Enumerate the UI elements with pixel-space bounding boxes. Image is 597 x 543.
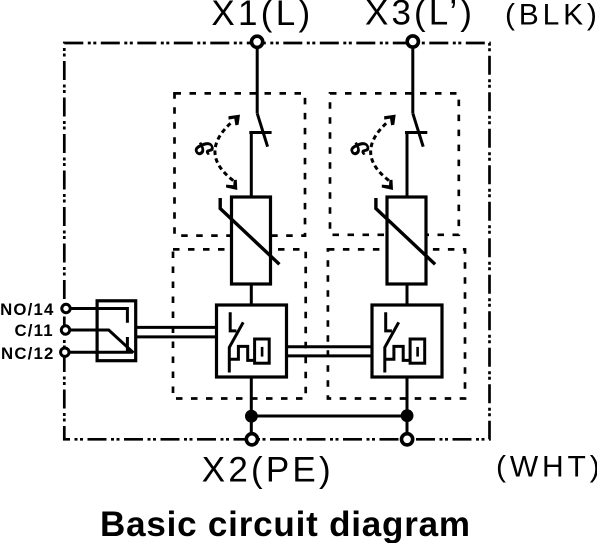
svg-text:X3(L’): X3(L’) [365,0,475,33]
temperature arc (thermal trip) left, dashed with arrowheads [215,122,233,181]
signal pair: K1 to U1 [136,326,217,329]
wire: varistor RV1 to gas discharge gap box [250,284,253,305]
U1 internal: fixed contact lead [230,312,236,331]
U1 internal: step waveform [229,346,254,360]
U2 internal: step waveform [385,346,410,360]
U1 internal: indicator tick [261,347,264,357]
terminal PE aux right [402,434,413,445]
wire: X1 lead down to disconnector [256,42,259,113]
terminal X3 [407,36,418,47]
K1 NO fixed contact [97,309,127,323]
U1 internal: indicator window [255,339,270,363]
terminal NO [62,304,70,312]
svg-text:NO/14: NO/14 [0,300,55,319]
temperature arc (thermal trip) right, dashed with arrowheads [371,122,389,181]
svg-text:X1(L): X1(L) [211,0,313,33]
terminal NC [61,348,69,356]
wire: varistor RV2 to spark gap box [406,284,409,305]
dashed box: lower module left [173,249,306,398]
terminal X1 [252,36,263,47]
K1 common blade [97,330,133,353]
varistor RV2 body [387,197,426,284]
wire: X3 lead down to disconnector [411,42,414,113]
svg-text:C/11: C/11 [14,321,53,340]
varistor RV1 diagonal [220,198,279,264]
spark gap / disconnect indicator box U2 [372,305,442,377]
wire: contact bar to varistor RV1 [250,133,253,199]
K1 NC fixed contact [97,337,132,352]
U2 internal: indicator tick [416,347,419,357]
dashed box: lower module right [328,249,465,398]
svg-text:Basic circuit diagram: Basic circuit diagram [100,505,471,543]
U1 internal: blade and lower arm [229,322,243,372]
remote contact wire NO [66,307,97,310]
thermal disconnector F2 blade (open) [413,113,423,146]
dashed box: protection path 2 (upper right) [330,93,459,234]
dashed box: protection path 1 (upper left) [175,93,306,235]
thermal disconnector F2 contact bar [405,131,427,134]
spark gap / disconnect indicator box U1 [217,305,287,377]
remote contact wire NC [65,351,97,354]
U2 internal: blade and lower arm [385,322,399,372]
wire: contact bar to varistor RV2 [406,133,409,199]
terminal X2 [246,434,257,445]
junction node left [245,410,258,423]
junction node right [401,409,414,422]
remote contact wire C [66,329,98,332]
wire: U2 to PE node [406,377,409,439]
wire: U1 to PE node [250,377,253,439]
U2 internal: indicator window [410,339,425,363]
svg-text:X2(PE): X2(PE) [202,451,334,490]
wire: PE bus between junctions [251,415,407,418]
thermal disconnector F1 blade (open) [257,113,267,146]
svg-text:(BLK): (BLK) [505,0,597,32]
outer enclosure border (dash-dot-dot) [64,43,489,439]
U2 internal: fixed contact lead [386,312,392,331]
svg-text:(WHT): (WHT) [496,450,597,483]
thermal disconnector F1 contact bar [249,131,271,134]
varistor RV2 diagonal [376,198,435,264]
signal pair: U1 to U2 [287,345,373,348]
remote signalling contact K1 box [97,301,136,361]
varistor RV1 body [232,197,271,284]
svg-text:NC/12: NC/12 [1,344,55,363]
terminal C [61,326,69,334]
